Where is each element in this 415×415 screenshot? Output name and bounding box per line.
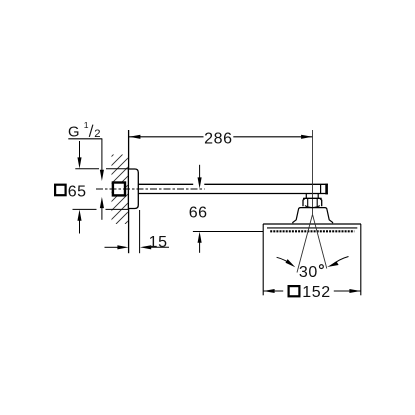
svg-text:65: 65 <box>68 183 87 200</box>
svg-text:2: 2 <box>94 128 101 140</box>
svg-text:152: 152 <box>302 284 331 301</box>
svg-text:1: 1 <box>84 120 89 130</box>
svg-text:286: 286 <box>204 130 233 147</box>
svg-text:30: 30 <box>299 264 318 281</box>
svg-text:66: 66 <box>189 205 208 222</box>
svg-text:15: 15 <box>149 234 168 251</box>
